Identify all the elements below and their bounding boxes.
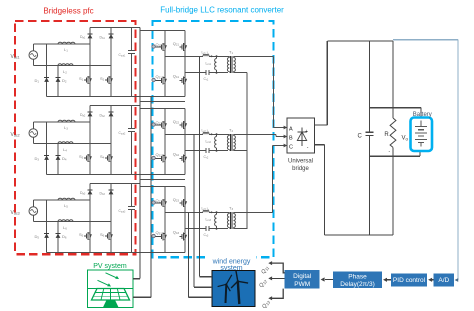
- wire wind phase 1 vertical: [199, 56, 201, 276]
- capacitor Cr1 + tank bottom rail: [185, 72, 206, 74]
- transistor Q21 (right leg top): [184, 31, 186, 97]
- wind turbine 1: [225, 284, 228, 303]
- diode D2 branch: [57, 66, 59, 97]
- svg-text:Vo: Vo: [402, 136, 409, 142]
- wire resonant tank top rail + inductor Lr1: [165, 55, 203, 57]
- PID control block: [391, 274, 427, 287]
- gate port circle Q12: [152, 123, 155, 126]
- battery block: [420, 108, 422, 119]
- wire AC top to bridge leg A: [32, 122, 34, 129]
- svg-text:Q42: Q42: [173, 152, 180, 158]
- wire output bottom bus to battery: [370, 155, 420, 157]
- wire AC bottom line: [32, 215, 34, 221]
- wire PFC top bus: [90, 183, 140, 185]
- svg-text:Digital: Digital: [293, 273, 312, 280]
- svg-text:Lm1: Lm1: [206, 62, 212, 67]
- wire PV negative output: [133, 296, 151, 298]
- gate port circle Q11: [152, 45, 155, 48]
- wire DC link vertical (PV negative rail): [150, 97, 152, 298]
- svg-text:D2: D2: [62, 78, 67, 84]
- AC source Vac1: [29, 51, 38, 60]
- svg-text:Db3: Db3: [100, 192, 106, 197]
- inductor L6: [58, 220, 73, 222]
- svg-text:D3: D3: [35, 156, 40, 162]
- wind energy system block: [209, 252, 256, 270]
- wire LLC top bus: [140, 186, 185, 188]
- svg-text:Lm3: Lm3: [206, 218, 212, 223]
- svg-text:Battery: Battery: [413, 112, 432, 118]
- transformer T1: [228, 56, 230, 57]
- wire T3 secondary to bridge input C: [234, 211, 273, 213]
- wire transformer secondary bottom to star bus: [234, 150, 248, 152]
- wind turbine 2: [238, 281, 240, 304]
- svg-text:Da2: Da2: [80, 113, 86, 118]
- capacitor C output filter: [369, 41, 371, 132]
- svg-text:+: +: [305, 129, 308, 135]
- panel stand: [103, 300, 119, 307]
- svg-text:L5: L5: [64, 203, 68, 209]
- wire wind input 2: [194, 286, 212, 288]
- svg-text:B: B: [289, 135, 293, 141]
- svg-text:PV system: PV system: [93, 263, 127, 270]
- wire output top bus to battery: [370, 107, 422, 109]
- wire wind phase 3 vertical: [188, 212, 190, 297]
- svg-text:PID control: PID control: [393, 277, 426, 284]
- svg-text:PWM: PWM: [294, 281, 310, 288]
- capacitor Cout1 output branch: [131, 28, 133, 51]
- wire LLC top bus: [140, 108, 185, 110]
- svg-text:S2: S2: [100, 76, 105, 82]
- svg-text:D6: D6: [62, 234, 67, 240]
- inductor L1: [58, 42, 75, 44]
- svg-text:S4: S4: [100, 154, 105, 160]
- solar panel: [92, 289, 130, 301]
- gate port circle Q32: [152, 156, 155, 159]
- resistor R load: [392, 41, 394, 118]
- svg-text:Cr1: Cr1: [204, 77, 209, 82]
- transistor Q23 (right leg top): [184, 187, 186, 253]
- wire PFC/LLC bottom bus: [47, 96, 186, 98]
- wire transformer secondary bottom to star bus: [234, 228, 248, 230]
- wire PWM gate output Q11: [271, 263, 285, 273]
- wire + diode D3 branch: [46, 122, 48, 175]
- transistor Q33 (left leg bottom): [162, 232, 164, 240]
- wire DC link bus cell1-cell2: [140, 101, 185, 103]
- wire AC bottom line: [32, 59, 34, 65]
- wire bridge + output to top bus: [315, 124, 328, 126]
- svg-text:T2: T2: [229, 128, 233, 134]
- transistor Q41 (right leg bottom): [182, 76, 184, 84]
- inductor L3: [58, 120, 75, 122]
- wire T1 secondary to bridge input A: [234, 55, 274, 57]
- node arrow into C: [284, 144, 288, 148]
- transistor Q12 (left leg top): [164, 109, 166, 175]
- svg-text:L3: L3: [64, 125, 68, 131]
- svg-text:L1: L1: [64, 47, 68, 53]
- capacitor Cout3 output branch: [131, 184, 133, 207]
- wire wind phase 2 vertical: [193, 134, 195, 287]
- svg-text:Db1: Db1: [100, 36, 106, 41]
- wire T2 secondary to bridge input B: [234, 133, 277, 135]
- transistor Q43 (right leg bottom): [182, 232, 184, 240]
- AC source Vac3: [29, 207, 38, 216]
- svg-text:S6: S6: [100, 232, 105, 238]
- wire transformer secondary bottom to star bus: [234, 72, 248, 74]
- inductor L4: [58, 142, 73, 144]
- svg-text:T3: T3: [229, 206, 233, 212]
- svg-text:C: C: [358, 133, 363, 139]
- transistor Q13 (left leg top): [164, 187, 166, 253]
- wire PFC/LLC bottom bus: [47, 174, 186, 176]
- wire PFC/LLC bottom bus: [47, 252, 186, 254]
- svg-text:R: R: [384, 132, 389, 138]
- svg-text:S1: S1: [79, 76, 84, 82]
- wire PV positive output: [133, 278, 140, 280]
- universal bridge block: [287, 118, 315, 153]
- wire Vo feedback sense to A/D: [393, 39, 458, 41]
- svg-text:Lm2: Lm2: [206, 140, 212, 145]
- A/D block: [433, 274, 454, 287]
- svg-text:D4: D4: [62, 156, 67, 162]
- inductor L5: [58, 198, 75, 200]
- svg-text:Cr2: Cr2: [204, 155, 209, 160]
- wire PWM gate output Q12: [271, 277, 285, 279]
- wire resonant tank top rail + inductor Lr2: [165, 133, 203, 135]
- svg-text:C: C: [289, 144, 293, 150]
- svg-text:A: A: [289, 126, 293, 132]
- transistor Q32 (left leg bottom): [162, 154, 164, 162]
- svg-text:S5: S5: [79, 232, 84, 238]
- node arrow into A: [284, 126, 288, 130]
- svg-text:Q43: Q43: [173, 230, 180, 236]
- Full-bridge LLC resonant converter dashed boundary box: [153, 21, 274, 257]
- diode D6 branch: [57, 222, 59, 253]
- wire + diode D1 branch: [46, 44, 48, 97]
- wire AC top to bridge leg A: [32, 200, 34, 207]
- wire bridge - output return: [315, 144, 325, 146]
- gate port circle Q33: [152, 234, 155, 237]
- wire + diode D5 branch: [46, 200, 48, 253]
- inductor Lm2 magnetizing: [216, 134, 218, 136]
- svg-text:Da1: Da1: [80, 35, 86, 40]
- transistor Q42 (right leg bottom): [182, 154, 184, 162]
- svg-text:Q23: Q23: [173, 197, 180, 203]
- wire AC bottom line: [32, 137, 34, 143]
- wire wind input 3: [189, 296, 212, 298]
- capacitor Cout2 output branch: [131, 106, 133, 129]
- leg with diode Db3 and switch S6: [110, 184, 112, 253]
- svg-text:Delay(2π/3): Delay(2π/3): [340, 281, 374, 288]
- wire LLC top bus: [140, 30, 185, 32]
- svg-text:Universal: Universal: [288, 158, 313, 164]
- leg with diode Db2 and switch S4: [110, 106, 112, 175]
- svg-text:S3: S3: [79, 154, 84, 160]
- leg with diode Da2 and switch S3: [89, 106, 91, 175]
- wire AC top to bridge leg A: [32, 44, 34, 51]
- wire DC link vertical (PV positive rail): [139, 28, 141, 279]
- sun ray arrows: [106, 273, 118, 278]
- svg-text:D5: D5: [35, 234, 40, 240]
- wire PFC top bus: [90, 105, 140, 107]
- svg-text:Db2: Db2: [100, 114, 106, 119]
- wire Phase Delay to Digital PWM: [325, 279, 333, 281]
- svg-text:T1: T1: [229, 50, 233, 56]
- svg-text:Phase: Phase: [348, 273, 367, 280]
- wire resonant tank top rail + inductor Lr3: [165, 211, 203, 213]
- svg-text:Q32: Q32: [156, 152, 163, 158]
- svg-text:Q21: Q21: [173, 41, 180, 47]
- wire PID to Phase Delay: [387, 279, 391, 281]
- leg with diode Da1 and switch S1: [89, 28, 91, 97]
- diode D4 branch: [57, 144, 59, 175]
- wire PFC top bus: [90, 27, 140, 29]
- wire PWM gate output Q13: [271, 289, 284, 299]
- transistor Q11 (left leg top): [164, 31, 166, 97]
- transformer T3: [228, 212, 230, 213]
- gate port circle Q13: [152, 201, 155, 204]
- svg-text:Cr3: Cr3: [204, 233, 209, 238]
- svg-text:A/D: A/D: [438, 277, 449, 284]
- leg with diode Db1 and switch S2: [110, 28, 112, 97]
- AC source Vac2: [29, 129, 38, 138]
- capacitor Cr3 + tank bottom rail: [185, 228, 206, 230]
- capacitor Cr2 + tank bottom rail: [185, 150, 206, 152]
- wire DC link bus cell2-cell3: [140, 179, 185, 181]
- wire star bus of transformer secondaries: [246, 73, 248, 229]
- transistor Q31 (left leg bottom): [162, 76, 164, 84]
- inductor Lm1 magnetizing: [216, 56, 218, 58]
- svg-text:Q33: Q33: [156, 230, 163, 236]
- svg-text:Da3: Da3: [80, 191, 86, 196]
- svg-text:Full-bridge LLC resonant conve: Full-bridge LLC resonant converter: [160, 6, 284, 15]
- svg-text:L4: L4: [63, 147, 67, 153]
- svg-text:L6: L6: [63, 225, 67, 231]
- Digital PWM block: [285, 270, 320, 289]
- svg-text:D1: D1: [35, 78, 40, 84]
- gate port circle Q31: [152, 78, 155, 81]
- node arrow into B: [284, 135, 288, 139]
- transformer T2: [228, 134, 230, 135]
- svg-text:bridge: bridge: [292, 166, 309, 172]
- svg-text:L2: L2: [63, 69, 67, 75]
- wire A/D to PID: [432, 279, 434, 281]
- svg-text:Q31: Q31: [156, 74, 163, 80]
- svg-text:Bridgeless pfc: Bridgeless pfc: [43, 7, 93, 16]
- leg with diode Da3 and switch S5: [89, 184, 91, 253]
- wire wind input 1: [200, 276, 213, 278]
- svg-text:Q41: Q41: [173, 74, 180, 80]
- transistor Q22 (right leg top): [184, 109, 186, 175]
- Phase Delay block: [333, 272, 382, 289]
- inductor Lm3 magnetizing: [216, 212, 218, 214]
- inductor L2: [58, 64, 73, 66]
- svg-text:Q22: Q22: [173, 119, 180, 125]
- Bridgeless PFC dashed boundary box: [15, 21, 136, 254]
